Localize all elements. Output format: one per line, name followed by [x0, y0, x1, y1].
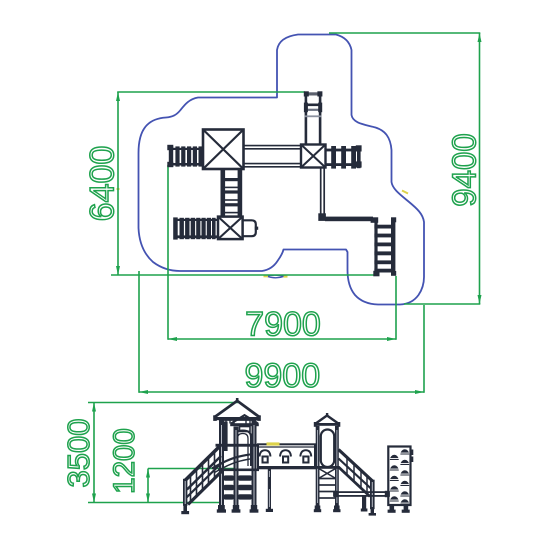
plan bridge corridor to tower B: [244, 146, 302, 167]
elevation left tower roof: [214, 401, 260, 418]
elevation left tower posts: [219, 419, 224, 507]
dim 7900 horizontal line: [168, 338, 396, 340]
wall feet: [390, 505, 395, 510]
dim 9400 bottom extension: [404, 303, 480, 305]
elevation left tower deck bands: [216, 444, 260, 447]
dim 9900 left extension: [138, 271, 140, 393]
dim 3500 vertical line: [93, 403, 95, 503]
elevation right tower: [314, 413, 341, 512]
entrance arch: [235, 431, 252, 467]
dim 6400 vertical line: [117, 92, 119, 275]
ground extension line: [88, 502, 219, 504]
blue safety boundary outline: [139, 35, 425, 305]
roof finial: [326, 413, 328, 416]
dim 3500 top extension: [88, 402, 238, 404]
ladder rungs: [319, 479, 335, 499]
yellow mark on bridge: [267, 442, 280, 445]
right stair newel post: [370, 480, 375, 510]
cross brace: [319, 469, 335, 478]
dim 6400 top extension: [117, 91, 305, 93]
dim 7900 left extension: [167, 165, 169, 340]
arch 3: [300, 450, 311, 456]
green dimension lines: [88, 33, 480, 503]
plan down ladder from tower A: [221, 169, 243, 217]
dentil row under eave: [219, 420, 255, 423]
dim 7900 right extension: [395, 276, 397, 340]
curved brace: [212, 454, 253, 468]
svg-text:7900: 7900: [245, 306, 321, 344]
latch: [411, 450, 414, 456]
svg-text:6400: 6400: [84, 146, 122, 222]
keystone box: [240, 427, 251, 432]
dim 9400 top extension: [329, 32, 480, 34]
plan bottom-right ladder: [371, 217, 397, 276]
dim 9900 horizontal line: [139, 391, 424, 393]
elevation left tower front pediment: [231, 415, 258, 423]
plan top ladder above tower B: [304, 91, 323, 144]
dim 9900 right extension: [423, 305, 425, 393]
svg-text:9400: 9400: [446, 133, 483, 206]
dimension arrowheads: [92, 33, 482, 503]
dim 1200 top extension: [148, 468, 234, 470]
stair newel post and foot: [183, 479, 187, 506]
elevation right stair: [339, 450, 377, 516]
yellow tick marks: [117, 189, 409, 277]
plan left lower ladder: [173, 217, 218, 239]
elevation left tower rung stacks: [224, 475, 253, 499]
elevation left tower roof finial: [236, 398, 239, 401]
arch 2: [280, 450, 291, 456]
plan L-shaped walkway from tower B down: [321, 168, 325, 215]
capsule tube: [321, 430, 334, 468]
svg-text:3500: 3500: [61, 419, 96, 488]
plan left upper ladder: [167, 145, 203, 167]
svg-text:1200: 1200: [108, 428, 141, 494]
svg-text:9900: 9900: [244, 357, 320, 395]
holds left column: [390, 449, 410, 504]
plan right ladder from tower B: [326, 145, 362, 168]
beam support post: [362, 496, 366, 510]
roof: [315, 416, 339, 425]
elevation left stair: [181, 446, 222, 514]
feet: [315, 506, 321, 511]
elevation climbing wall: [388, 447, 414, 513]
elevation left tower feet: [217, 505, 259, 513]
plan slide exit tab: [243, 220, 256, 236]
dim 1200 vertical line: [147, 469, 149, 503]
holds right column: [400, 449, 409, 454]
elevation bridge band with arches: [257, 444, 316, 469]
deck line: [315, 466, 340, 469]
dim 9400 vertical line: [479, 33, 481, 304]
blue small lens detail at bottom edge: [266, 275, 285, 278]
dim 6400 bottom extension: [111, 274, 375, 276]
arch 1: [260, 450, 271, 456]
elevation bridge support pole: [268, 469, 271, 510]
plan tower C square with X: [218, 217, 243, 240]
posts: [316, 426, 320, 506]
plan tower A square with X: [203, 130, 244, 170]
plan tower B square with X: [301, 145, 326, 168]
elevation beam to climbing wall: [334, 492, 389, 496]
